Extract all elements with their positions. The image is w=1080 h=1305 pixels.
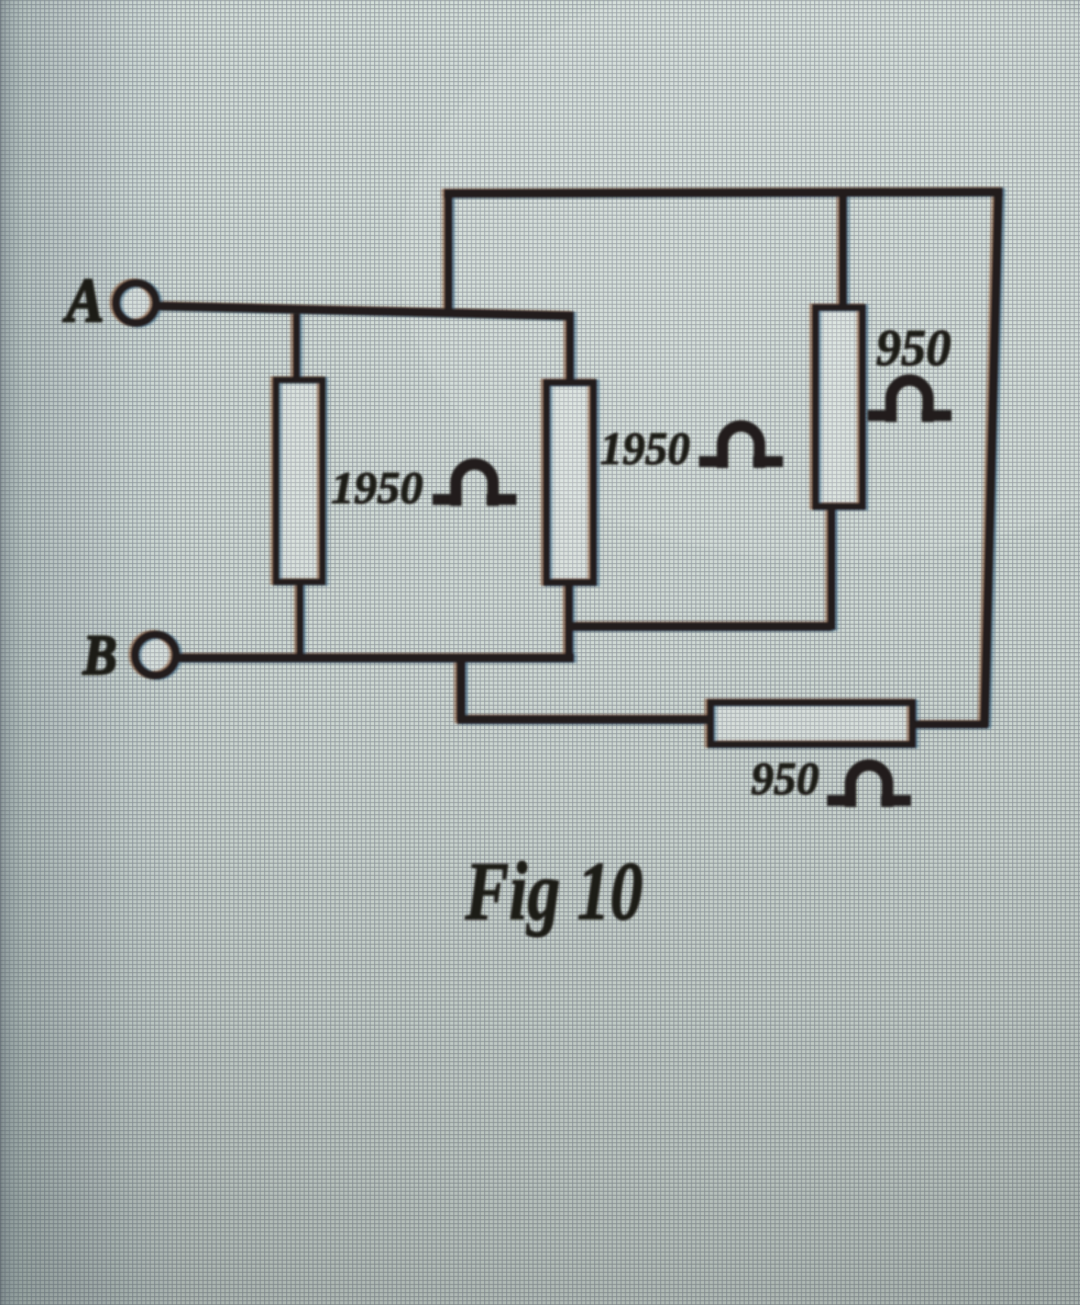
svg-text:1950: 1950 [600,423,690,475]
svg-text:B: B [82,624,117,687]
svg-text:950: 950 [876,320,951,377]
svg-text:950: 950 [751,753,819,805]
svg-text:1950: 1950 [331,462,423,513]
svg-text:Fig 10: Fig 10 [464,845,643,938]
svg-text:A: A [62,267,104,335]
